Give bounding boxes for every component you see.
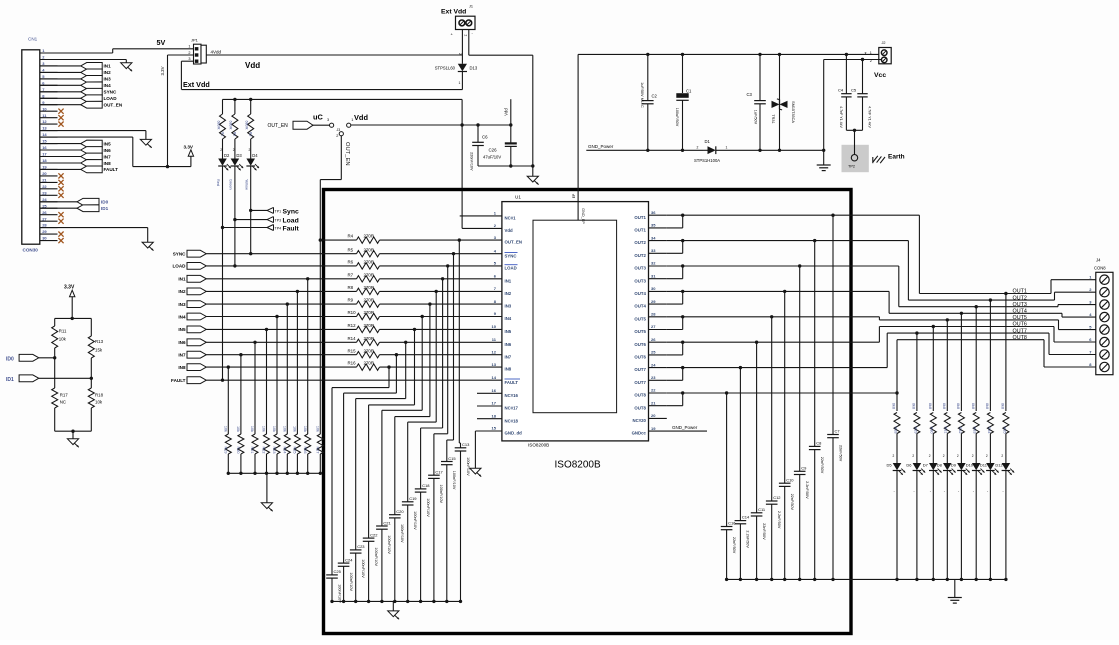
svg-text:3.3V: 3.3V bbox=[184, 144, 194, 149]
wire R6 to U1 bbox=[380, 265, 502, 267]
svg-text:2: 2 bbox=[336, 134, 338, 138]
svg-text:100nF/10V: 100nF/10V bbox=[439, 485, 443, 504]
svg-text:270R: 270R bbox=[364, 348, 375, 353]
wire Vdd line bbox=[351, 124, 511, 126]
CN1 pin 22 bbox=[40, 188, 58, 190]
svg-text:OUT4: OUT4 bbox=[634, 291, 646, 296]
svg-text:220nF/10V: 220nF/10V bbox=[469, 152, 473, 171]
resistor R25 10k bbox=[296, 290, 299, 293]
svg-text:GNDcc: GNDcc bbox=[632, 431, 647, 436]
svg-text:270R: 270R bbox=[364, 234, 375, 239]
svg-text:OUT3: OUT3 bbox=[634, 278, 646, 283]
resistor R12 270R bbox=[357, 326, 380, 332]
svg-text:NC#1: NC#1 bbox=[505, 216, 517, 221]
svg-text:R33: R33 bbox=[973, 427, 977, 434]
wire divider bottom rail bbox=[55, 430, 92, 432]
svg-text:OUT2: OUT2 bbox=[634, 240, 646, 245]
svg-text:26: 26 bbox=[651, 337, 656, 342]
svg-text:NC#17: NC#17 bbox=[505, 406, 519, 411]
CN1 pin 9 bbox=[40, 104, 58, 106]
svg-text:C1: C1 bbox=[686, 89, 692, 94]
CN1 pin 4 bbox=[40, 71, 58, 73]
wire OUT7 pair join bbox=[667, 367, 683, 369]
wire D13 cathode to Ext Vdd line bbox=[461, 72, 463, 90]
svg-text:IN6: IN6 bbox=[505, 342, 512, 347]
svg-text:R28: R28 bbox=[893, 427, 897, 434]
svg-text:C6: C6 bbox=[482, 135, 488, 140]
capacitor C4 4.7nF Y1 4kV bbox=[845, 54, 847, 93]
svg-text:680R: 680R bbox=[216, 120, 220, 129]
svg-text:D1: D1 bbox=[705, 139, 711, 144]
svg-text:100nF/10V: 100nF/10V bbox=[413, 511, 417, 530]
svg-text:SYNC: SYNC bbox=[173, 252, 186, 257]
LED D10 bbox=[972, 463, 981, 470]
resistor R15 270R bbox=[357, 352, 380, 358]
wire JP1 pin3 to Ext Vdd bbox=[181, 60, 193, 62]
svg-text:22nF/50V: 22nF/50V bbox=[838, 445, 842, 462]
svg-text:10k: 10k bbox=[282, 426, 286, 432]
svg-text:ID0: ID0 bbox=[6, 356, 14, 362]
wire CN1 pin 9 to flag OUT_EN bbox=[40, 104, 81, 106]
svg-text:19: 19 bbox=[651, 426, 656, 431]
svg-text:27: 27 bbox=[42, 216, 47, 221]
svg-text:C20: C20 bbox=[396, 509, 404, 514]
svg-text:ID1: ID1 bbox=[6, 377, 14, 383]
resistor R6 270R bbox=[357, 263, 380, 269]
svg-text:100nF/10V: 100nF/10V bbox=[426, 498, 430, 517]
wire R16 to U1 bbox=[380, 366, 502, 368]
svg-text:C3: C3 bbox=[747, 92, 753, 97]
CN1 pin 26 bbox=[40, 214, 58, 216]
svg-text:OUT1: OUT1 bbox=[1013, 289, 1027, 295]
svg-text:R13: R13 bbox=[95, 339, 104, 344]
resistor R21 10k bbox=[253, 341, 256, 344]
no-connect X CN1 pin 26 bbox=[58, 212, 63, 217]
wire R4 to U1 bbox=[380, 239, 502, 241]
svg-text:270R: 270R bbox=[364, 272, 375, 277]
svg-text:IN1: IN1 bbox=[505, 278, 512, 283]
svg-text:31: 31 bbox=[651, 273, 656, 278]
svg-text:LOAD: LOAD bbox=[172, 264, 186, 269]
svg-text:D3: D3 bbox=[236, 153, 242, 158]
svg-text:13: 13 bbox=[42, 126, 47, 131]
svg-text:2: 2 bbox=[912, 454, 914, 458]
svg-text:100uF/50V: 100uF/50V bbox=[675, 108, 679, 127]
svg-text:20: 20 bbox=[651, 413, 656, 418]
capacitor C13 100nF/10V bbox=[458, 240, 460, 443]
ground (CN1 pin28) bbox=[142, 242, 153, 248]
svg-text:ID1: ID1 bbox=[101, 206, 109, 211]
svg-text:100nF/10V: 100nF/10V bbox=[349, 572, 353, 591]
svg-text:Sync: Sync bbox=[283, 208, 299, 215]
svg-text:ISO8200B: ISO8200B bbox=[528, 443, 549, 448]
CN1 pin 24 bbox=[40, 201, 58, 203]
node IN3 (CN1 flag) bbox=[81, 75, 103, 82]
capacitor C10 22nF/50V bbox=[784, 291, 786, 483]
svg-text:OUT1: OUT1 bbox=[634, 228, 646, 233]
svg-text:10k: 10k bbox=[236, 426, 240, 432]
svg-text:6k8: 6k8 bbox=[928, 403, 932, 409]
node IN7 (CN1 flag) bbox=[81, 153, 103, 160]
wire net OUT4 bbox=[683, 290, 889, 292]
wire LOAD to R6 bbox=[206, 265, 356, 267]
CN1 pin 15 bbox=[40, 143, 58, 145]
J4 pin 3 terminal bbox=[1100, 300, 1109, 309]
capacitor C3 1uF/50V bbox=[759, 54, 761, 100]
ground (CN1 pin2) bbox=[121, 63, 132, 69]
svg-text:25: 25 bbox=[42, 203, 47, 208]
wire IN6 to R14 bbox=[206, 341, 356, 343]
svg-text:R21: R21 bbox=[250, 447, 254, 454]
resistor R17 NC bbox=[54, 358, 56, 388]
LED D3 (Green) bbox=[231, 159, 240, 166]
capacitor C19 100nF/10V bbox=[435, 291, 437, 422]
svg-text:R22: R22 bbox=[262, 447, 266, 454]
svg-text:12: 12 bbox=[492, 349, 497, 354]
resistor R30 6k8 bbox=[932, 325, 935, 328]
svg-text:D12: D12 bbox=[995, 463, 1003, 468]
svg-text:IN1: IN1 bbox=[178, 277, 186, 282]
svg-text:270R: 270R bbox=[364, 323, 375, 328]
svg-text:15: 15 bbox=[492, 426, 497, 431]
capacitor C22 100nF/10V bbox=[414, 329, 416, 405]
svg-text:J4: J4 bbox=[1096, 258, 1101, 263]
svg-text:C24: C24 bbox=[345, 557, 353, 562]
svg-text:FAULT: FAULT bbox=[104, 167, 119, 172]
svg-text:IN6: IN6 bbox=[104, 148, 112, 153]
svg-text:680R: 680R bbox=[229, 120, 233, 129]
svg-text:OUT_EN: OUT_EN bbox=[344, 142, 350, 166]
svg-text:OUT5: OUT5 bbox=[634, 316, 646, 321]
CN1 pin 25 bbox=[40, 207, 58, 209]
svg-text:J3: J3 bbox=[337, 128, 341, 132]
svg-text:OUT8: OUT8 bbox=[1013, 335, 1027, 341]
resistor R29 6k8 bbox=[915, 331, 918, 334]
no-connect X CN1 pin 21 bbox=[58, 180, 63, 185]
wire R8 to U1 bbox=[380, 290, 502, 292]
svg-text:D5: D5 bbox=[887, 463, 893, 468]
svg-text:GND_dd: GND_dd bbox=[505, 431, 523, 436]
op-amp U1 ISO8200B body bbox=[502, 202, 649, 441]
wire 3.3V to JP1 pin2 bbox=[168, 54, 194, 56]
wire CN1 pin 19 to flag FAULT bbox=[40, 168, 81, 170]
svg-text:10k: 10k bbox=[250, 426, 254, 432]
node 3.3V flag (near CN1) bbox=[188, 150, 193, 157]
LED D4 (Yellow) bbox=[246, 159, 255, 166]
svg-text:10k: 10k bbox=[272, 426, 276, 432]
node ID0 (CN1 flag) bbox=[77, 198, 99, 205]
svg-text:D2: D2 bbox=[224, 153, 230, 158]
svg-text:OUT6: OUT6 bbox=[1013, 322, 1027, 328]
svg-text:10: 10 bbox=[42, 106, 47, 111]
svg-text:uC: uC bbox=[313, 113, 324, 122]
svg-text:CON8: CON8 bbox=[1094, 266, 1106, 271]
svg-text:100nF/10V: 100nF/10V bbox=[452, 471, 456, 490]
svg-text:Load: Load bbox=[283, 218, 299, 225]
svg-text:D10: D10 bbox=[966, 463, 974, 468]
wire Vcc top rail bbox=[578, 53, 881, 55]
capacitor C1 100uF/50V bbox=[682, 54, 684, 93]
svg-text:16: 16 bbox=[42, 145, 47, 150]
svg-text:15: 15 bbox=[42, 139, 47, 144]
wire IN3 to R9 bbox=[206, 303, 356, 305]
wire CN1 pin13 to ground bbox=[40, 130, 146, 132]
svg-text:100nF/10V: 100nF/10V bbox=[337, 584, 341, 603]
node OUT_EN (CN1 flag) bbox=[81, 101, 103, 108]
CN1 pin 8 bbox=[40, 97, 58, 99]
wire R7 to U1 bbox=[380, 278, 502, 280]
svg-text:OUT7: OUT7 bbox=[1013, 328, 1027, 334]
svg-text:Vdd: Vdd bbox=[354, 113, 368, 122]
svg-text:22: 22 bbox=[42, 184, 47, 189]
svg-text:C5: C5 bbox=[851, 88, 857, 93]
svg-text:2: 2 bbox=[929, 454, 931, 458]
ground (divider) bbox=[67, 439, 78, 445]
svg-text:Vdd: Vdd bbox=[503, 108, 508, 116]
resistor R35 6k8 bbox=[1004, 292, 1007, 295]
resistor R11 10k bbox=[54, 318, 56, 326]
wire caps bottom rail bbox=[332, 600, 461, 602]
jumper J3 bbox=[330, 123, 334, 127]
ground (pulldowns) bbox=[261, 503, 272, 509]
resistor R8 270R bbox=[357, 288, 380, 294]
wire OUT6 pair join bbox=[667, 341, 683, 343]
CN1 pin 7 bbox=[40, 91, 58, 93]
svg-text:270R: 270R bbox=[364, 298, 375, 303]
svg-text:R16: R16 bbox=[348, 361, 357, 366]
svg-text:23: 23 bbox=[42, 190, 47, 195]
svg-text:18: 18 bbox=[42, 158, 47, 163]
svg-text:STPS1L60: STPS1L60 bbox=[435, 66, 456, 71]
svg-text:NC#20: NC#20 bbox=[633, 418, 647, 423]
svg-text:14: 14 bbox=[492, 375, 497, 380]
wire R5 to U1 bbox=[380, 253, 502, 255]
svg-text:R12: R12 bbox=[348, 323, 357, 328]
svg-text:IN2: IN2 bbox=[104, 70, 112, 75]
svg-text:OUT8: OUT8 bbox=[634, 405, 646, 410]
no-connect X CN1 pin 27 bbox=[58, 219, 63, 224]
svg-text:2.2nF/50V: 2.2nF/50V bbox=[777, 511, 781, 529]
svg-text:IN5: IN5 bbox=[178, 327, 186, 332]
svg-text:R4: R4 bbox=[348, 234, 354, 239]
svg-text:10k: 10k bbox=[95, 400, 103, 405]
svg-text:LOAD: LOAD bbox=[104, 96, 118, 101]
svg-text:OUT3: OUT3 bbox=[634, 266, 646, 271]
CN1 pin 21 bbox=[40, 181, 58, 183]
CN1 pin 17 bbox=[40, 156, 58, 158]
svg-text:C25: C25 bbox=[334, 569, 342, 574]
wire IN8 to R16 bbox=[206, 366, 356, 368]
resistor R26 10k bbox=[306, 277, 309, 280]
LED D6 bbox=[913, 463, 922, 470]
svg-text:6k8: 6k8 bbox=[985, 403, 989, 409]
capacitor C16 22nF/50V bbox=[726, 393, 728, 527]
svg-text:Ext Vdd: Ext Vdd bbox=[183, 80, 210, 89]
wire GND_Power bottom rail bbox=[727, 578, 1006, 580]
svg-text:2: 2 bbox=[972, 454, 974, 458]
svg-text:D6: D6 bbox=[906, 463, 912, 468]
svg-text:23: 23 bbox=[651, 375, 656, 380]
svg-text:2.2nF/50V: 2.2nF/50V bbox=[746, 530, 750, 548]
svg-text:C16: C16 bbox=[728, 521, 736, 526]
svg-text:36: 36 bbox=[651, 210, 656, 215]
svg-text:10k: 10k bbox=[315, 426, 319, 432]
J4 pin 7 terminal bbox=[1100, 350, 1109, 359]
svg-text:2: 2 bbox=[249, 148, 251, 152]
wire OUT3 pair join bbox=[667, 265, 683, 267]
svg-text:Vdd: Vdd bbox=[245, 61, 260, 70]
svg-text:26: 26 bbox=[42, 210, 47, 215]
test point TP3 Load bbox=[235, 219, 267, 221]
svg-text:34: 34 bbox=[651, 235, 656, 240]
transient suppressor TR31 SM15T35CA bbox=[779, 54, 781, 100]
no-connect X CN1 pin 10 bbox=[58, 109, 63, 114]
capacitor C11 22nF/50V bbox=[756, 342, 758, 513]
svg-text:24: 24 bbox=[651, 362, 656, 367]
svg-text:IN4: IN4 bbox=[505, 316, 512, 321]
capacitor C26 47uF/10V bbox=[510, 125, 512, 143]
svg-text:29: 29 bbox=[651, 299, 656, 304]
resistor R24 10k bbox=[286, 302, 289, 305]
svg-text:GND_EP: GND_EP bbox=[581, 208, 585, 224]
svg-text:GND_Power: GND_Power bbox=[588, 144, 614, 149]
J4 pin 5 terminal bbox=[1100, 325, 1109, 334]
svg-text:C10: C10 bbox=[786, 477, 794, 482]
svg-text:OUT6: OUT6 bbox=[634, 355, 646, 360]
svg-text:100nF/10V: 100nF/10V bbox=[374, 547, 378, 566]
svg-text:J1: J1 bbox=[469, 5, 473, 9]
svg-text:6k8: 6k8 bbox=[892, 403, 896, 409]
ground (GND_Power) bbox=[823, 150, 825, 165]
wire OUT2 pair join bbox=[667, 240, 683, 242]
svg-text:R8: R8 bbox=[348, 285, 354, 290]
svg-text:OUT3: OUT3 bbox=[1013, 302, 1027, 308]
wire J3 pin2 OUT_EN down bbox=[340, 136, 342, 180]
capacitor C21 100nF/10V bbox=[421, 317, 423, 411]
wire net OUT1 bbox=[683, 214, 920, 216]
connector CN1 (CON30) bbox=[22, 50, 40, 244]
svg-text:D7: D7 bbox=[923, 463, 929, 468]
no-connect X CN1 pin 12 bbox=[58, 122, 63, 127]
wire SYNC to R5 bbox=[206, 253, 356, 255]
capacitor C8 22nF/50V bbox=[814, 241, 816, 447]
resistor R34 6k8 bbox=[989, 298, 992, 301]
resistor R4 270R bbox=[357, 237, 380, 243]
wire CN1 pin28 to ground bbox=[40, 227, 148, 229]
svg-text:1uF/50V MLLC: 1uF/50V MLLC bbox=[640, 82, 644, 108]
svg-text:C21: C21 bbox=[383, 520, 391, 525]
svg-text:IN5: IN5 bbox=[104, 141, 112, 146]
svg-text:TP1: TP1 bbox=[275, 209, 282, 213]
svg-text:24: 24 bbox=[42, 197, 47, 202]
CN1 pin 2 bbox=[40, 59, 58, 61]
svg-text:18: 18 bbox=[492, 413, 497, 418]
capacitor C24 100nF/10V bbox=[395, 355, 397, 393]
wire J1 pin2 to ground bbox=[468, 30, 470, 56]
wire D3 cathode to TP3/LOAD bbox=[234, 166, 236, 266]
wire GND_Power line bbox=[586, 149, 703, 151]
svg-text:2: 2 bbox=[233, 148, 235, 152]
svg-text:Ext Vdd: Ext Vdd bbox=[441, 9, 466, 16]
svg-text:2: 2 bbox=[458, 53, 462, 55]
svg-text:1: 1 bbox=[726, 146, 728, 150]
CN1 pin 16 bbox=[40, 149, 58, 151]
svg-text:OUT5: OUT5 bbox=[1013, 315, 1027, 321]
wire Vdd to U1 pin2 bbox=[461, 125, 463, 228]
svg-text:21: 21 bbox=[651, 400, 656, 405]
svg-text:100nF/10V: 100nF/10V bbox=[387, 535, 391, 554]
wire CN1 pin 8 to flag LOAD bbox=[40, 97, 81, 99]
svg-text:C8: C8 bbox=[816, 441, 822, 446]
svg-text:TP4: TP4 bbox=[275, 227, 282, 231]
wire net OUT8 bbox=[683, 392, 897, 394]
svg-text:U1: U1 bbox=[515, 195, 521, 200]
wire 5V rail to JP1 pin1 bbox=[113, 48, 194, 50]
wire CN1 pin 25 to flag ID1 bbox=[40, 207, 77, 209]
svg-text:IN1: IN1 bbox=[104, 64, 112, 69]
svg-text:CON30: CON30 bbox=[23, 248, 39, 253]
svg-text:47uF/10V: 47uF/10V bbox=[483, 155, 501, 160]
no-connect X CN1 pin 22 bbox=[58, 186, 63, 191]
CN1 pin 5 bbox=[40, 78, 58, 80]
svg-text:OUT_EN: OUT_EN bbox=[268, 123, 289, 129]
svg-text:SYNC: SYNC bbox=[104, 90, 117, 95]
ground (CN1 pin13) bbox=[140, 139, 151, 145]
svg-text:IN8: IN8 bbox=[178, 365, 186, 370]
svg-text:1: 1 bbox=[870, 51, 872, 55]
wire IN2 to R8 bbox=[206, 290, 356, 292]
svg-text:1: 1 bbox=[351, 118, 353, 122]
CN1 pin 27 bbox=[40, 220, 58, 222]
resistor R19 10k bbox=[227, 365, 230, 368]
svg-text:14: 14 bbox=[42, 132, 47, 137]
svg-text:6k8: 6k8 bbox=[912, 403, 916, 409]
svg-text:2: 2 bbox=[986, 454, 988, 458]
J4 pin 2 terminal bbox=[1100, 288, 1109, 297]
resistor R23 10k bbox=[275, 315, 278, 318]
svg-text:100nF/10V: 100nF/10V bbox=[361, 559, 365, 578]
svg-text:33: 33 bbox=[651, 248, 656, 253]
wire R10 to U1 bbox=[380, 316, 502, 318]
capacitor C9 2.2nF/50V bbox=[799, 266, 801, 471]
svg-text:270R: 270R bbox=[364, 336, 375, 341]
svg-text:3: 3 bbox=[327, 118, 329, 122]
svg-text:C22: C22 bbox=[370, 532, 378, 537]
resistor R20 10k bbox=[239, 353, 242, 356]
CN1 pin 19 bbox=[40, 168, 58, 170]
svg-text:100nF/10V: 100nF/10V bbox=[466, 457, 470, 476]
resistor R1 680R bbox=[222, 99, 224, 114]
svg-text:4Vdd: 4Vdd bbox=[211, 49, 222, 54]
svg-text:R29: R29 bbox=[913, 427, 917, 434]
svg-text:TR31: TR31 bbox=[771, 114, 775, 123]
svg-text:2: 2 bbox=[697, 146, 699, 150]
ground (J1 pin2) bbox=[527, 176, 538, 182]
svg-text:C23: C23 bbox=[357, 544, 365, 549]
diode D1 STPS1H100A bbox=[708, 146, 716, 154]
node LOAD (CN1 flag) bbox=[81, 95, 103, 102]
svg-text:270R: 270R bbox=[364, 247, 375, 252]
capacitor C17 100nF/10V bbox=[447, 266, 449, 434]
capacitor C12 2.2nF/50V bbox=[771, 317, 773, 501]
svg-text:LOAD: LOAD bbox=[505, 266, 517, 271]
wire IN4 to R10 bbox=[206, 316, 356, 318]
svg-text:270R: 270R bbox=[364, 310, 375, 315]
wire J2 pin2 bbox=[824, 59, 882, 61]
svg-text:OUT_EN: OUT_EN bbox=[505, 240, 522, 245]
svg-text:D8: D8 bbox=[937, 463, 943, 468]
resistor R7 270R bbox=[357, 276, 380, 282]
